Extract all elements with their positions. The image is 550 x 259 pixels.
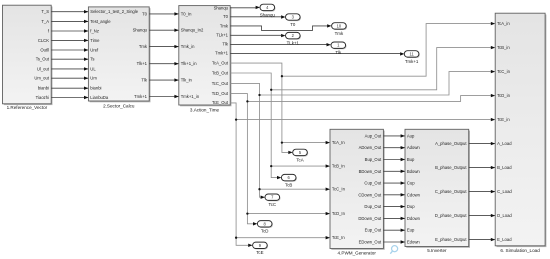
junction TcC to PWM: [258, 188, 260, 190]
outport 9 TcE: [253, 242, 269, 255]
svg-text:Tmk: Tmk: [335, 31, 344, 36]
svg-text:4.PWM_Generator: 4.PWM_Generator: [338, 251, 377, 256]
svg-text:TcB_In: TcB_In: [332, 164, 345, 169]
svg-text:Tmk+1_in: Tmk+1_in: [181, 94, 200, 99]
outport 1 Tlk: [331, 42, 347, 55]
svg-text:Selector_1_test_2_Single: Selector_1_test_2_Single: [90, 9, 138, 14]
wire T0 to outport 3: [230, 15, 285, 18]
junction TcB to PWM: [270, 165, 272, 167]
svg-text:Outll: Outll: [40, 47, 49, 52]
svg-text:A_phase_Output: A_phase_Output: [435, 141, 467, 146]
subsystem block 3.Action_Time: [179, 5, 232, 112]
svg-text:Adown: Adown: [407, 145, 420, 150]
subsystem block 5.Inverter: [405, 129, 470, 253]
svg-text:BDown_Out: BDown_Out: [359, 169, 382, 174]
wire Ts_Out (1.Reference_Vector to 2.Sector_Calcu): [51, 58, 88, 61]
svg-text:D_phase_Output: D_phase_Output: [435, 213, 467, 218]
svg-text:TcE: TcE: [256, 250, 263, 255]
wire TcB_Out trunk (down to outport 6): [230, 73, 281, 179]
svg-text:DDown_Out: DDown_Out: [358, 216, 382, 221]
outport 11 Tmk+1: [404, 51, 420, 64]
wire Shanqu to outport 4: [230, 6, 260, 9]
svg-text:Bdown: Bdown: [407, 169, 420, 174]
svg-text:Ts_Out: Ts_Out: [36, 57, 50, 62]
wire E_phase_Output (5.Inverter to 6.Simulation_Load): [469, 238, 496, 241]
svg-text:C_Load: C_Load: [497, 189, 512, 194]
outport 5 TcA: [293, 149, 309, 162]
svg-text:Bup: Bup: [407, 157, 415, 162]
svg-text:TcD_in: TcD_in: [497, 93, 510, 98]
svg-text:TcB_Out: TcB_Out: [212, 70, 229, 75]
wire TcA branch to 4.PWM_Generator TcA_In: [282, 141, 330, 144]
svg-text:2.Sector_Calcu: 2.Sector_Calcu: [103, 104, 135, 109]
outport 7 TcC: [265, 194, 281, 207]
wire Aup_Out (4.PWM_Generator to 5.Inverter): [383, 134, 405, 137]
wire Tmk+1 to outport 11: [230, 52, 404, 55]
wire TLk+1 to outport 2: [230, 34, 285, 37]
wire Tlk+1 (2.Sector_Calcu to 3.Action_Time): [149, 62, 179, 65]
svg-text:TLk+1: TLk+1: [287, 41, 300, 46]
wire TcA branch to 6.Simulation_Load TcA_in: [282, 22, 495, 76]
svg-text:T_A: T_A: [41, 19, 49, 24]
wire D_phase_Output (5.Inverter to 6.Simulation_Load): [469, 214, 496, 217]
wire Shanqu (2.Sector_Calcu to 3.Action_Time): [149, 29, 179, 32]
wire B_phase_Output (5.Inverter to 6.Simulation_Load): [469, 166, 496, 169]
svg-text:TcE_Out: TcE_Out: [212, 100, 229, 105]
svg-text:Tlk_in: Tlk_in: [181, 78, 193, 83]
svg-text:TcC: TcC: [269, 202, 277, 207]
wire CDown_Out (4.PWM_Generator to 5.Inverter): [383, 193, 405, 196]
svg-text:TcE_in: TcE_in: [497, 117, 510, 122]
svg-text:LianbuDa: LianbuDa: [90, 95, 109, 100]
svg-text:TcA_in: TcA_in: [497, 21, 510, 26]
outport 4 Shanqu: [260, 4, 276, 17]
wire Outll (1.Reference_Vector to 2.Sector_Calcu): [51, 48, 88, 51]
svg-text:Tmk: Tmk: [139, 44, 148, 49]
svg-text:Eup: Eup: [407, 228, 415, 233]
outport 3 T0: [286, 14, 302, 27]
subsystem block 1.Reference_Vector: [3, 5, 53, 110]
wire Tlk (2.Sector_Calcu to 3.Action_Time): [149, 78, 179, 81]
svg-text:Tmk: Tmk: [220, 23, 229, 28]
wire C_phase_Output (5.Inverter to 6.Simulation_Load): [469, 190, 496, 193]
svg-text:T0: T0: [142, 11, 148, 16]
wire T0 (2.Sector_Calcu to 3.Action_Time): [149, 12, 179, 15]
svg-text:C_phase_Output: C_phase_Output: [435, 189, 467, 194]
wire ADown_Out (4.PWM_Generator to 5.Inverter): [383, 146, 405, 149]
wire TcE branch to 4.PWM_Generator TcE_In: [236, 236, 330, 239]
svg-text:Tiaozhi: Tiaozhi: [36, 95, 49, 100]
wire Tmk+1 (2.Sector_Calcu to 3.Action_Time): [149, 95, 179, 98]
wire Cup_Out (4.PWM_Generator to 5.Inverter): [383, 181, 405, 184]
svg-text:Tmk+1: Tmk+1: [405, 59, 419, 64]
svg-text:TcC_in: TcC_in: [497, 69, 510, 74]
svg-text:Shanqu: Shanqu: [133, 28, 148, 33]
svg-text:Test_angle: Test_angle: [90, 19, 111, 24]
svg-text:TcA: TcA: [296, 157, 303, 162]
svg-text:Cup_Out: Cup_Out: [364, 181, 382, 186]
wire TcD branch to 6.Simulation_Load TcD_in: [247, 94, 495, 102]
svg-text:TcB_in: TcB_in: [497, 45, 510, 50]
wire A_phase_Output (5.Inverter to 6.Simulation_Load): [469, 142, 496, 145]
wire Tiaozhi (1.Reference_Vector to 2.Sector_Calcu): [51, 96, 88, 99]
wire f (1.Reference_Vector to 2.Sector_Calcu): [51, 29, 88, 32]
subsystem block 4.PWM_Generator: [330, 129, 385, 255]
wire Bup_Out (4.PWM_Generator to 5.Inverter): [383, 158, 405, 161]
svg-text:1.Reference_Vector: 1.Reference_Vector: [7, 105, 48, 110]
svg-text:TcD_In: TcD_In: [332, 211, 346, 216]
svg-text:T0: T0: [290, 22, 296, 27]
svg-text:Dup_Out: Dup_Out: [364, 204, 382, 209]
svg-text:Ddown: Ddown: [407, 216, 421, 221]
svg-text:TcD_Out: TcD_Out: [212, 91, 229, 96]
wire Ul_out (1.Reference_Vector to 2.Sector_Calcu): [51, 67, 88, 70]
wire TcE branch to 6.Simulation_Load TcE_in: [236, 118, 495, 121]
junction TcC branch: [258, 94, 260, 96]
svg-text:Um: Um: [90, 76, 97, 81]
svg-text:Tmk_in: Tmk_in: [181, 44, 195, 49]
svg-text:CLCK: CLCK: [38, 38, 49, 43]
svg-text:TcE_In: TcE_In: [332, 235, 345, 240]
svg-text:Bup_Out: Bup_Out: [365, 157, 382, 162]
svg-text:T0: T0: [223, 14, 229, 19]
svg-text:CDown_Out: CDown_Out: [358, 192, 382, 197]
svg-text:Tlk: Tlk: [141, 78, 147, 83]
svg-text:Time: Time: [90, 38, 100, 43]
wire Eup_Out (4.PWM_Generator to 5.Inverter): [383, 229, 405, 232]
svg-text:D_Load: D_Load: [497, 213, 512, 218]
wire TcC branch to 6.Simulation_Load TcC_in: [260, 70, 496, 95]
svg-text:Tmk+1: Tmk+1: [215, 50, 229, 55]
svg-text:11: 11: [409, 51, 414, 56]
svg-text:Tlk+1: Tlk+1: [137, 61, 148, 66]
svg-text:B_Load: B_Load: [497, 165, 512, 170]
wire bianbi (1.Reference_Vector to 2.Sector_Calcu): [51, 87, 88, 90]
svg-text:bianbi: bianbi: [38, 86, 49, 91]
wire T_A (1.Reference_Vector to 2.Sector_Calcu): [51, 20, 88, 23]
svg-text:Tlk: Tlk: [335, 50, 342, 55]
wire TcD branch to 4.PWM_Generator TcD_In: [247, 212, 330, 215]
svg-text:TcD: TcD: [261, 229, 269, 234]
wire Tlk to outport 1: [230, 43, 331, 46]
svg-text:3.Action_Time: 3.Action_Time: [190, 108, 220, 113]
svg-text:UL: UL: [90, 66, 96, 71]
wire T_S (1.Reference_Vector to 2.Sector_Calcu): [51, 10, 88, 13]
svg-text:Uref: Uref: [90, 47, 99, 52]
svg-text:EDown_Out: EDown_Out: [359, 239, 382, 244]
svg-text:Tlk+1_in: Tlk+1_in: [181, 61, 198, 66]
junction TcE to PWM: [235, 237, 237, 239]
svg-text:TcC_In: TcC_In: [332, 187, 346, 192]
zoom badge icon: [390, 246, 397, 254]
wire Tmk to outport 10: [230, 24, 331, 30]
wire TcB branch to 6.Simulation_Load TcB_in: [271, 46, 495, 90]
junction TcD to PWM: [246, 212, 248, 214]
svg-text:T0_In: T0_In: [181, 11, 192, 16]
svg-text:Aup_Out: Aup_Out: [365, 133, 382, 138]
svg-text:bianbi: bianbi: [90, 86, 101, 91]
svg-text:ADown_Out: ADown_Out: [359, 145, 382, 150]
wire Dup_Out (4.PWM_Generator to 5.Inverter): [383, 205, 405, 208]
wire DDown_Out (4.PWM_Generator to 5.Inverter): [383, 217, 405, 220]
wire BDown_Out (4.PWM_Generator to 5.Inverter): [383, 170, 405, 173]
svg-text:TLk+1: TLk+1: [216, 32, 228, 37]
outport 10 Tmk: [332, 23, 348, 36]
svg-text:Aup: Aup: [407, 133, 415, 138]
svg-text:B_phase_Output: B_phase_Output: [435, 165, 467, 170]
svg-text:10: 10: [337, 23, 342, 28]
subsystem block 6.Simulation_Load: [495, 13, 546, 253]
svg-text:Um_out: Um_out: [34, 76, 49, 81]
wire TcD_Out trunk (down to outport 8): [230, 94, 257, 226]
svg-text:Cdown: Cdown: [407, 192, 421, 197]
subsystem block 2.Sector_Calcu: [88, 7, 150, 109]
wire Tmk (2.Sector_Calcu to 3.Action_Time): [149, 45, 179, 48]
wire TcA_Out trunk (down to outport 5): [230, 63, 293, 154]
svg-text:TcA_Out: TcA_Out: [212, 61, 229, 66]
junction TcA to PWM: [281, 141, 283, 143]
outport 2 TLk+1: [286, 32, 302, 45]
junction TcB branch: [270, 89, 272, 91]
wire TcC branch to 4.PWM_Generator TcC_In: [260, 188, 331, 191]
svg-text:6. Simulation_Load: 6. Simulation_Load: [500, 248, 540, 253]
wire TcB branch to 4.PWM_Generator TcB_In: [271, 164, 330, 167]
junction TcD branch: [246, 100, 248, 102]
wire TcC_Out trunk (down to outport 7): [230, 83, 265, 198]
wire EDown_Out (4.PWM_Generator to 5.Inverter): [383, 240, 405, 243]
junction TcA branch: [281, 75, 283, 77]
svg-text:E_Load: E_Load: [497, 237, 512, 242]
svg-text:TcC_Out: TcC_Out: [212, 81, 229, 86]
svg-text:TcA_In: TcA_In: [332, 140, 345, 145]
svg-text:5.Inverter: 5.Inverter: [427, 248, 447, 253]
svg-text:Shanqu: Shanqu: [260, 12, 276, 17]
svg-text:Ul_out: Ul_out: [37, 66, 50, 71]
svg-text:f_Nz: f_Nz: [90, 28, 99, 33]
outport 8 TcD: [257, 221, 273, 234]
junction TcE branch: [235, 118, 237, 120]
svg-text:Dup: Dup: [407, 204, 415, 209]
svg-text:Eup_Out: Eup_Out: [365, 228, 382, 233]
wire CLCK (1.Reference_Vector to 2.Sector_Calcu): [51, 39, 88, 42]
svg-text:Shanqu: Shanqu: [214, 5, 229, 10]
wire Um_out (1.Reference_Vector to 2.Sector_Calcu): [51, 77, 88, 80]
svg-text:Ts: Ts: [90, 57, 94, 62]
svg-text:A_Load: A_Load: [497, 141, 512, 146]
outport 6 TcB: [281, 174, 297, 187]
svg-text:TcB: TcB: [285, 183, 292, 188]
svg-text:T_S: T_S: [41, 9, 49, 14]
wire TcE_Out trunk (down to outport 9): [230, 103, 252, 247]
svg-text:Tlk: Tlk: [222, 41, 228, 46]
svg-text:Edown: Edown: [407, 239, 420, 244]
svg-text:Tmk+1: Tmk+1: [134, 94, 148, 99]
svg-text:E_phase_Output: E_phase_Output: [435, 237, 467, 242]
svg-text:Shanqu_In2: Shanqu_In2: [181, 28, 204, 33]
svg-text:Cup: Cup: [407, 181, 415, 186]
